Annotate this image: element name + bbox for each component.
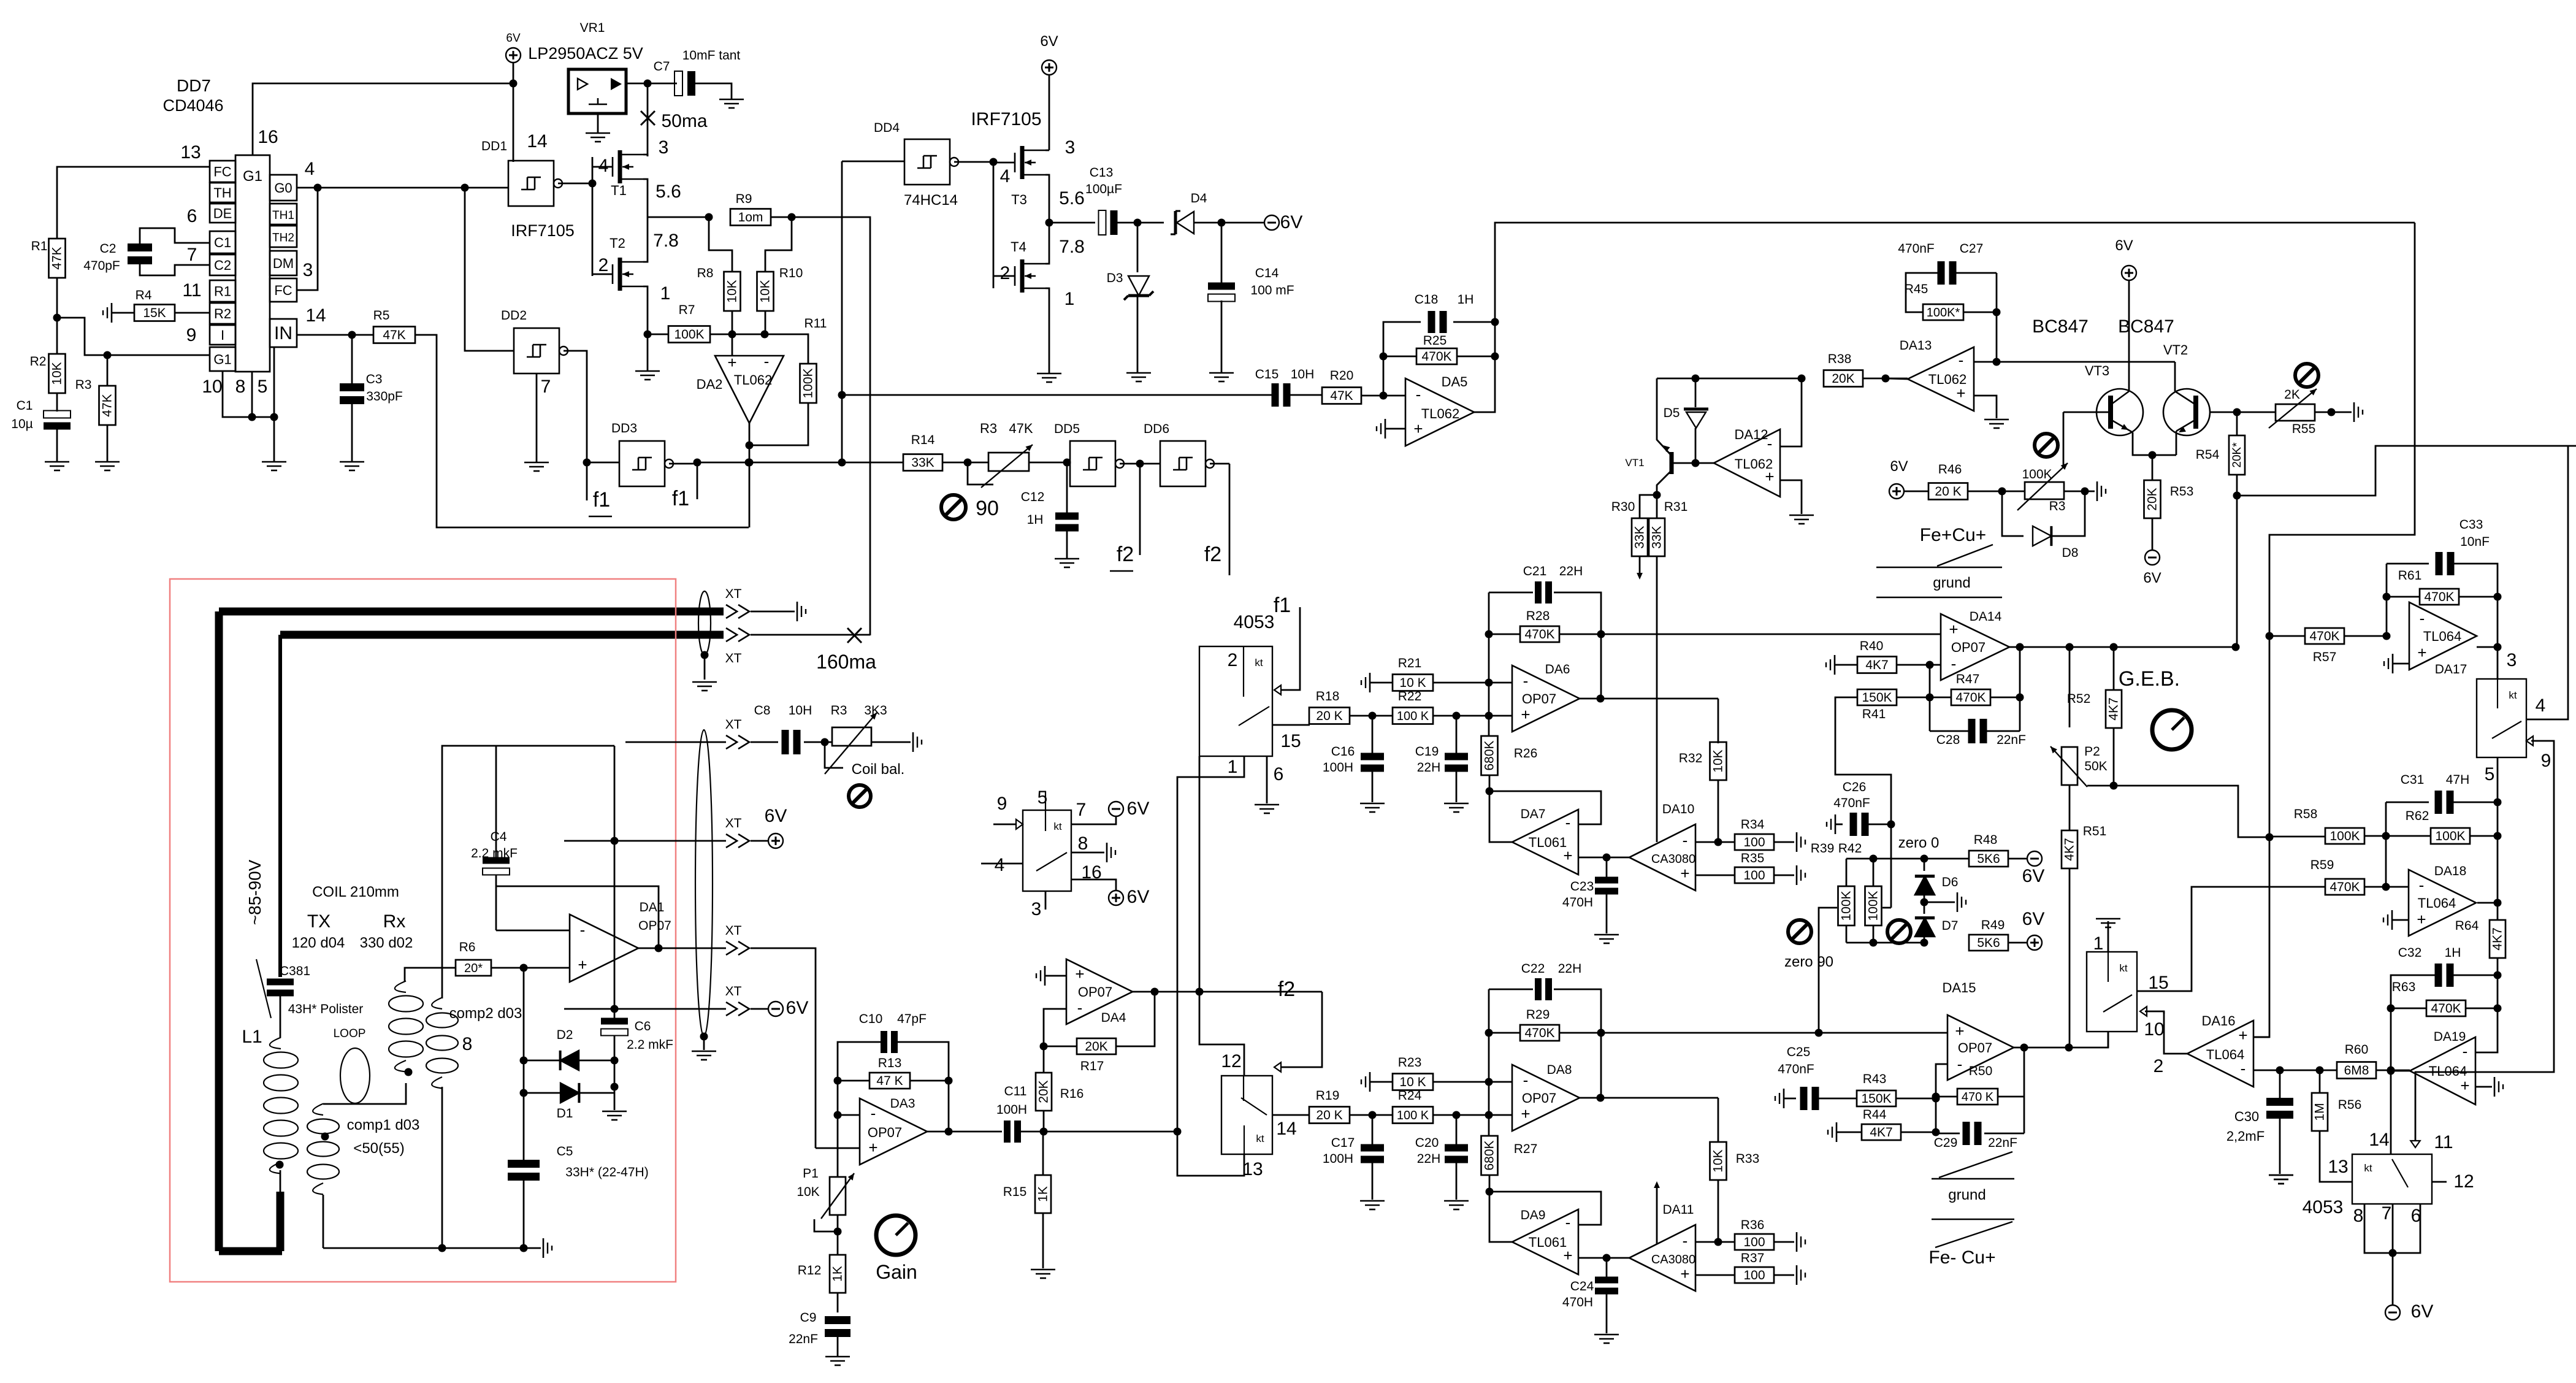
svg-text:VT3: VT3 (2085, 363, 2109, 378)
svg-text:R45: R45 (1905, 282, 1928, 296)
svg-text:150K: 150K (1862, 691, 1892, 705)
svg-text:C10: C10 (859, 1012, 883, 1026)
svg-text:-: - (2420, 609, 2425, 627)
svg-text:R50: R50 (1969, 1064, 1993, 1078)
svg-text:1K: 1K (831, 1266, 845, 1282)
svg-text:10: 10 (2144, 1019, 2164, 1040)
svg-text:+: + (1949, 620, 1958, 638)
svg-text:C1: C1 (17, 399, 33, 413)
svg-text:6V: 6V (2411, 1301, 2434, 1322)
svg-text:1: 1 (2093, 933, 2104, 954)
svg-text:kt: kt (1256, 1133, 1264, 1144)
svg-text:C7: C7 (654, 59, 670, 74)
svg-text:50ma: 50ma (661, 111, 707, 131)
svg-text:160ma: 160ma (816, 651, 876, 673)
svg-text:I: I (221, 328, 224, 343)
svg-text:D6: D6 (1942, 875, 1959, 889)
svg-text:470K: 470K (2329, 880, 2360, 894)
svg-text:f2: f2 (1117, 543, 1134, 566)
svg-text:3: 3 (1065, 137, 1076, 158)
svg-text:20*: 20* (464, 962, 483, 975)
svg-text:6V: 6V (1280, 212, 1303, 232)
svg-text:R4: R4 (136, 288, 152, 302)
svg-text:6V: 6V (1890, 458, 1908, 475)
svg-text:DA17: DA17 (2435, 662, 2467, 676)
svg-text:33K: 33K (1633, 526, 1647, 548)
svg-text:R18: R18 (1316, 689, 1340, 703)
svg-text:100: 100 (1743, 835, 1765, 849)
svg-text:11: 11 (2434, 1132, 2453, 1152)
svg-text:G1: G1 (213, 352, 231, 367)
svg-text:IRF7105: IRF7105 (971, 109, 1041, 129)
svg-text:+: + (1521, 705, 1530, 724)
svg-text:-: - (2463, 1042, 2468, 1060)
svg-text:R62: R62 (2406, 809, 2429, 823)
svg-text:f1: f1 (593, 488, 610, 511)
svg-text:4: 4 (305, 159, 315, 179)
svg-text:C15: C15 (1255, 367, 1279, 381)
svg-text:LOOP: LOOP (334, 1027, 366, 1040)
svg-text:VR1: VR1 (580, 21, 605, 35)
svg-text:C1: C1 (214, 235, 231, 250)
svg-text:R59: R59 (2310, 858, 2334, 872)
svg-text:D8: D8 (2062, 546, 2079, 560)
svg-text:R28: R28 (1526, 609, 1550, 623)
svg-text:C14: C14 (1255, 266, 1279, 280)
svg-text:470K: 470K (1421, 350, 1451, 364)
svg-text:VT2: VT2 (2163, 342, 2188, 358)
svg-text:DA15: DA15 (1942, 980, 1976, 995)
svg-text:2,2mF: 2,2mF (2226, 1128, 2265, 1144)
svg-text:-: - (1077, 998, 1083, 1017)
svg-text:IRF7105: IRF7105 (511, 221, 575, 240)
svg-text:kt: kt (2364, 1162, 2372, 1174)
svg-text:TL062: TL062 (1735, 456, 1773, 472)
svg-text:2: 2 (598, 255, 609, 275)
svg-text:9: 9 (186, 325, 197, 345)
svg-text:C12: C12 (1021, 490, 1045, 504)
svg-text:Rx: Rx (383, 911, 406, 932)
svg-text:6V: 6V (2022, 866, 2045, 886)
svg-text:20K: 20K (1085, 1040, 1107, 1054)
svg-text:C19: C19 (1415, 745, 1439, 759)
svg-text:R14: R14 (911, 433, 935, 447)
svg-text:DA3: DA3 (890, 1097, 915, 1111)
svg-text:R13: R13 (878, 1056, 902, 1070)
svg-text:R1: R1 (31, 239, 48, 253)
svg-text:470nF: 470nF (1833, 796, 1870, 810)
svg-text:OP07: OP07 (1958, 1040, 1992, 1055)
svg-text:20 K: 20 K (1316, 1108, 1342, 1122)
svg-text:R51: R51 (2083, 824, 2107, 838)
svg-text:C23: C23 (1570, 879, 1594, 894)
svg-text:100: 100 (1743, 1235, 1765, 1249)
svg-text:33H* (22-47H): 33H* (22-47H) (565, 1165, 648, 1179)
svg-text:DA1: DA1 (640, 900, 665, 914)
svg-text:15: 15 (1280, 731, 1301, 751)
svg-text:2.2 mkF: 2.2 mkF (627, 1038, 673, 1052)
svg-text:TL062: TL062 (1928, 372, 1966, 387)
svg-text:-: - (1683, 1232, 1688, 1250)
svg-text:1H: 1H (1027, 513, 1044, 527)
svg-text:5K6: 5K6 (1977, 852, 2000, 866)
svg-text:R48: R48 (1974, 833, 1998, 847)
svg-text:14: 14 (1276, 1119, 1296, 1139)
svg-text:7: 7 (1076, 800, 1087, 820)
svg-text:TL064: TL064 (2423, 629, 2461, 644)
svg-text:R3: R3 (2049, 499, 2066, 513)
svg-text:DA19: DA19 (2434, 1030, 2466, 1044)
svg-text:C18: C18 (1415, 293, 1439, 307)
svg-text:R64: R64 (2455, 919, 2479, 933)
svg-text:14: 14 (2369, 1130, 2389, 1150)
svg-text:6V: 6V (786, 998, 809, 1018)
svg-text:-: - (2419, 876, 2425, 894)
svg-text:DD4: DD4 (874, 121, 900, 135)
svg-text:2: 2 (1228, 650, 1238, 670)
svg-text:13: 13 (1242, 1159, 1263, 1179)
svg-text:-: - (1951, 654, 1957, 673)
svg-text:C27: C27 (1960, 242, 1984, 256)
svg-text:470H: 470H (1562, 895, 1593, 910)
svg-text:C8: C8 (754, 703, 771, 718)
svg-text:f2: f2 (1278, 978, 1295, 1001)
svg-text:R44: R44 (1863, 1108, 1887, 1122)
svg-text:R27: R27 (1514, 1142, 1538, 1156)
svg-text:5: 5 (2485, 764, 2495, 784)
svg-text:10 K: 10 K (1399, 1075, 1426, 1089)
svg-text:470K: 470K (1524, 627, 1554, 642)
svg-text:zero 0: zero 0 (1898, 835, 1940, 851)
svg-text:6: 6 (1274, 764, 1284, 784)
svg-text:C16: C16 (1331, 745, 1355, 759)
svg-text:kt: kt (2119, 962, 2128, 974)
svg-text:100 K: 100 K (1397, 1109, 1429, 1122)
svg-text:5: 5 (258, 377, 268, 397)
svg-text:100H: 100H (996, 1103, 1027, 1117)
svg-text:R61: R61 (2398, 569, 2422, 583)
svg-text:DD3: DD3 (611, 421, 637, 435)
svg-text:R47: R47 (1956, 672, 1980, 686)
svg-text:10 K: 10 K (1399, 676, 1426, 690)
svg-text:DA14: DA14 (1970, 610, 2002, 624)
svg-text:47K: 47K (383, 328, 405, 342)
svg-text:150K: 150K (1861, 1092, 1891, 1106)
svg-text:R46: R46 (1938, 462, 1962, 477)
svg-text:10µ: 10µ (11, 417, 32, 431)
svg-text:R8: R8 (697, 266, 714, 280)
svg-text:R19: R19 (1316, 1089, 1340, 1103)
svg-text:TL064: TL064 (2429, 1063, 2467, 1079)
svg-text:10K: 10K (759, 280, 773, 302)
svg-text:C22: C22 (1521, 962, 1545, 976)
svg-text:TH1: TH1 (272, 209, 294, 222)
svg-text:BC847: BC847 (2118, 316, 2174, 337)
svg-text:OP07: OP07 (1078, 984, 1112, 1000)
svg-text:R12: R12 (798, 1263, 822, 1278)
svg-text:100K: 100K (2435, 829, 2465, 843)
svg-text:470nF: 470nF (1898, 242, 1935, 256)
svg-text:680K: 680K (1483, 740, 1497, 770)
svg-text:C32: C32 (2398, 946, 2422, 960)
svg-text:470K: 470K (2431, 1002, 2461, 1016)
svg-text:FC: FC (213, 164, 231, 180)
svg-text:comp2 d03: comp2 d03 (449, 1005, 522, 1022)
svg-text:120 d04: 120 d04 (292, 935, 345, 951)
svg-text:C25: C25 (1787, 1045, 1811, 1059)
svg-text:47K: 47K (1009, 421, 1033, 436)
svg-text:47K: 47K (1330, 389, 1353, 403)
svg-text:100: 100 (1743, 1268, 1765, 1282)
svg-text:grund: grund (1948, 1187, 1986, 1203)
svg-text:10K: 10K (725, 280, 740, 302)
svg-text:12: 12 (2453, 1171, 2474, 1192)
svg-text:DA2: DA2 (697, 377, 723, 392)
svg-text:100K: 100K (674, 328, 704, 342)
svg-text:D2: D2 (557, 1028, 573, 1042)
svg-text:DA9: DA9 (1521, 1208, 1546, 1222)
svg-text:100K: 100K (801, 368, 816, 398)
svg-text:C17: C17 (1331, 1136, 1355, 1150)
svg-text:C3: C3 (366, 372, 383, 386)
svg-text:100H: 100H (1323, 1152, 1353, 1166)
svg-text:20K: 20K (1832, 372, 1854, 386)
svg-text:R58: R58 (2294, 807, 2318, 821)
svg-text:13: 13 (180, 142, 201, 163)
svg-text:10H: 10H (1291, 367, 1315, 381)
svg-text:kt: kt (2509, 689, 2517, 701)
svg-text:1M: 1M (2313, 1103, 2327, 1121)
svg-text:8: 8 (2353, 1206, 2364, 1226)
svg-text:470 K: 470 K (1962, 1090, 1994, 1104)
svg-text:10K: 10K (1711, 1149, 1726, 1172)
svg-text:R36: R36 (1741, 1218, 1765, 1232)
svg-text:C33: C33 (2459, 518, 2483, 532)
svg-text:33K: 33K (1650, 526, 1664, 548)
svg-text:100K: 100K (1840, 891, 1854, 921)
svg-text:R2: R2 (214, 306, 231, 321)
svg-text:VT1: VT1 (1625, 457, 1644, 469)
svg-text:10K: 10K (50, 362, 64, 385)
svg-text:15: 15 (2148, 973, 2168, 993)
svg-text:DA11: DA11 (1663, 1203, 1694, 1217)
svg-text:TL062: TL062 (1421, 406, 1459, 421)
svg-text:TL061: TL061 (1529, 1235, 1567, 1250)
svg-text:22nF: 22nF (1988, 1136, 2017, 1150)
svg-text:XT: XT (725, 816, 742, 830)
svg-text:+: + (2238, 1026, 2247, 1044)
svg-text:6: 6 (187, 206, 197, 226)
svg-text:2: 2 (2154, 1056, 2164, 1076)
svg-text:R17: R17 (1080, 1059, 1104, 1073)
svg-text:T1: T1 (611, 183, 627, 198)
svg-text:+: + (868, 1138, 877, 1157)
svg-text:C381: C381 (280, 964, 310, 978)
svg-text:13: 13 (2328, 1157, 2348, 1177)
svg-text:6V: 6V (506, 32, 521, 45)
svg-text:6V: 6V (765, 806, 787, 826)
svg-text:R39: R39 (1811, 841, 1835, 856)
svg-text:R10: R10 (779, 266, 803, 280)
svg-text:TL064: TL064 (2418, 895, 2456, 911)
svg-text:R42: R42 (1838, 841, 1862, 856)
svg-text:1: 1 (660, 283, 671, 304)
svg-text:10K: 10K (797, 1185, 819, 1199)
svg-text:4: 4 (598, 156, 609, 176)
svg-text:R41: R41 (1862, 707, 1886, 721)
svg-text:<50(55): <50(55) (353, 1140, 404, 1157)
svg-text:22nF: 22nF (1997, 733, 2026, 747)
svg-text:C11: C11 (1004, 1084, 1027, 1098)
svg-text:6M8: 6M8 (2344, 1063, 2369, 1078)
svg-text:DD5: DD5 (1054, 422, 1080, 436)
svg-text:TH2: TH2 (272, 232, 294, 245)
svg-text:7.8: 7.8 (1059, 237, 1085, 257)
svg-text:100 mF: 100 mF (1250, 283, 1294, 297)
svg-text:4K7: 4K7 (1865, 658, 1888, 672)
svg-text:-: - (1523, 1071, 1529, 1089)
svg-text:DA13: DA13 (1900, 339, 1932, 353)
svg-text:3: 3 (303, 260, 313, 280)
svg-text:DD2: DD2 (501, 308, 527, 323)
svg-text:100K*: 100K* (1927, 306, 1960, 320)
svg-text:47pF: 47pF (897, 1012, 927, 1026)
svg-text:D3: D3 (1107, 271, 1123, 285)
svg-text:-: - (1957, 1055, 1963, 1073)
svg-text:DD6: DD6 (1144, 422, 1169, 436)
svg-text:5.6: 5.6 (655, 182, 681, 202)
svg-text:100 K: 100 K (1397, 710, 1429, 723)
svg-text:+: + (1521, 1105, 1530, 1123)
svg-text:22H: 22H (1558, 962, 1582, 976)
svg-text:XT: XT (725, 587, 742, 601)
svg-text:C2: C2 (100, 242, 117, 256)
svg-text:C29: C29 (1934, 1136, 1958, 1150)
svg-text:1K: 1K (1036, 1186, 1050, 1202)
svg-text:+: + (1680, 864, 1689, 883)
svg-text:-: - (1416, 385, 1421, 404)
svg-text:100K: 100K (1867, 891, 1881, 921)
svg-text:6V: 6V (1040, 33, 1058, 50)
svg-text:-: - (1523, 672, 1529, 690)
svg-text:L1: L1 (242, 1027, 262, 1047)
svg-text:3: 3 (659, 137, 669, 158)
svg-text:R53: R53 (2170, 485, 2194, 499)
svg-text:20 K: 20 K (1935, 485, 1961, 499)
svg-text:R15: R15 (1003, 1185, 1027, 1199)
svg-text:330pF: 330pF (366, 389, 403, 404)
svg-text:FC: FC (274, 283, 292, 298)
svg-text:R63: R63 (2392, 980, 2416, 994)
svg-text:DA18: DA18 (2434, 864, 2467, 878)
svg-text:C28: C28 (1936, 733, 1960, 747)
svg-text:+: + (578, 956, 587, 974)
svg-text:DA16: DA16 (2201, 1013, 2235, 1029)
svg-text:11: 11 (182, 280, 201, 301)
svg-text:TL064: TL064 (2206, 1047, 2244, 1062)
svg-text:Fe- Cu+: Fe- Cu+ (1928, 1247, 1995, 1268)
svg-text:R30: R30 (1611, 500, 1635, 514)
svg-text:IN: IN (274, 323, 292, 343)
svg-text:4: 4 (1000, 166, 1011, 186)
svg-text:-: - (580, 921, 586, 939)
svg-text:R7: R7 (679, 303, 695, 317)
svg-text:R3: R3 (980, 421, 997, 436)
svg-text:C9: C9 (800, 1311, 817, 1325)
svg-text:470nF: 470nF (1778, 1062, 1814, 1076)
svg-text:f1: f1 (672, 487, 689, 510)
svg-text:2K: 2K (2284, 388, 2300, 402)
svg-text:R34: R34 (1741, 818, 1765, 832)
svg-text:C2: C2 (214, 258, 231, 273)
svg-text:DA7: DA7 (1521, 807, 1546, 821)
svg-text:47 K: 47 K (876, 1074, 903, 1088)
svg-text:12: 12 (1221, 1051, 1241, 1071)
svg-text:6V: 6V (2022, 909, 2045, 929)
svg-text:R35: R35 (1741, 851, 1765, 865)
svg-text:43H* Polister: 43H* Polister (288, 1002, 364, 1016)
svg-text:4: 4 (995, 855, 1005, 875)
svg-text:-: - (1959, 351, 1964, 369)
svg-text:1H: 1H (2445, 946, 2461, 960)
svg-text:22H: 22H (1559, 564, 1583, 578)
svg-text:R2: R2 (30, 354, 47, 369)
svg-text:R9: R9 (736, 192, 752, 206)
svg-text:D4: D4 (1191, 191, 1207, 205)
svg-text:R49: R49 (1981, 918, 2005, 932)
svg-text:P1: P1 (803, 1167, 819, 1181)
svg-text:DA12: DA12 (1734, 427, 1768, 442)
svg-text:+: + (1075, 965, 1084, 983)
svg-text:4053: 4053 (1234, 612, 1275, 632)
svg-text:OP07: OP07 (1522, 1090, 1556, 1106)
svg-text:CD4046: CD4046 (162, 96, 223, 115)
svg-text:6V: 6V (2115, 237, 2133, 254)
svg-text:LP2950ACZ 5V: LP2950ACZ 5V (528, 44, 643, 63)
svg-text:7.8: 7.8 (653, 231, 679, 251)
svg-text:DE: DE (213, 206, 232, 221)
svg-text:10H: 10H (789, 703, 812, 718)
svg-text:R6: R6 (459, 940, 476, 954)
svg-text:100H: 100H (1323, 760, 1353, 775)
svg-text:Coil bal.: Coil bal. (852, 761, 905, 778)
svg-text:OP07: OP07 (1951, 640, 1986, 655)
svg-text:10: 10 (202, 377, 222, 397)
svg-text:+: + (2417, 910, 2426, 929)
svg-text:D1: D1 (557, 1106, 573, 1121)
svg-text:33K: 33K (911, 456, 934, 470)
svg-text:-: - (1565, 813, 1571, 832)
svg-text:DA5: DA5 (1442, 374, 1468, 389)
svg-text:C5: C5 (557, 1144, 573, 1159)
svg-text:100K: 100K (2022, 467, 2052, 481)
svg-text:TH: TH (213, 185, 231, 201)
svg-text:470H: 470H (1562, 1295, 1593, 1309)
svg-text:9: 9 (2541, 751, 2551, 771)
svg-text:OP07: OP07 (638, 919, 671, 933)
svg-text:3: 3 (1031, 899, 1042, 919)
svg-text:R43: R43 (1863, 1072, 1887, 1086)
svg-text:C24: C24 (1570, 1279, 1594, 1293)
svg-text:5K6: 5K6 (1977, 936, 2000, 950)
svg-text:G.E.B.: G.E.B. (2119, 667, 2180, 691)
svg-text:6V: 6V (2143, 570, 2161, 586)
svg-text:C6: C6 (635, 1019, 651, 1033)
svg-text:100µF: 100µF (1085, 182, 1122, 196)
svg-text:D7: D7 (1942, 919, 1959, 933)
svg-text:+: + (727, 353, 736, 372)
svg-text:100K: 100K (2329, 829, 2360, 843)
